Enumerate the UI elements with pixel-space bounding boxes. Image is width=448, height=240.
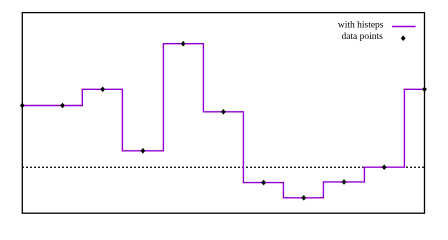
svg-text:with histeps: with histeps <box>338 21 384 31</box>
svg-text:data points: data points <box>341 32 383 42</box>
